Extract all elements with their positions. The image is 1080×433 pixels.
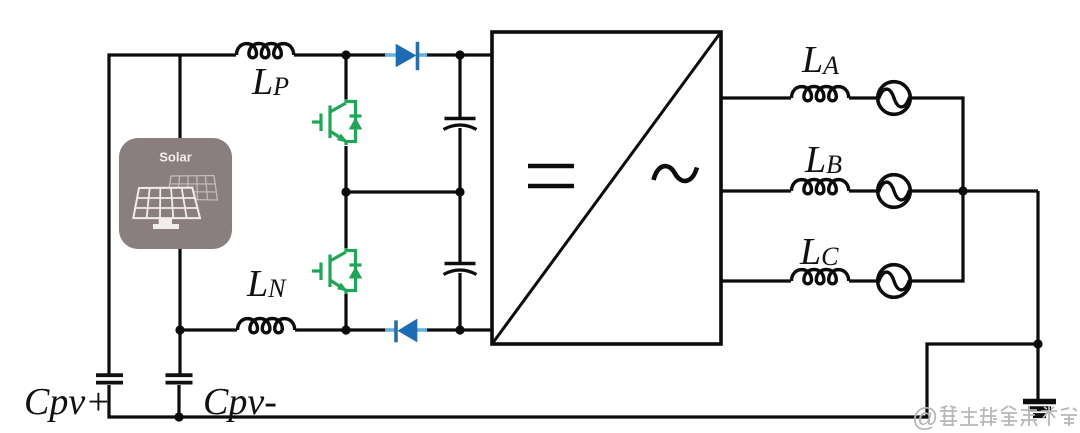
capacitor Cpv+ [96, 375, 123, 382]
wire bottom bus left segment [180, 328, 237, 331]
node bottom of IGBT branch [341, 325, 350, 334]
wire top bus after diode D1 [425, 53, 492, 56]
big front panel [133, 188, 200, 219]
wire far right vertical to ground [1036, 191, 1039, 399]
inductor LC [792, 270, 849, 284]
wire left vertical (PV+ rail) [107, 53, 110, 375]
svg-text:LP: LP [251, 61, 289, 103]
IGBT Q1 [312, 99, 362, 145]
svg-text:Solar: Solar [159, 150, 192, 165]
dc symbol [528, 166, 574, 186]
node neutral/ground [1033, 339, 1042, 348]
capacitor C1 (dc link upper) [444, 119, 477, 130]
wire phase A output [722, 96, 963, 99]
wire phase C output [722, 279, 963, 282]
wire second vertical (PV- rail through solar icon) [178, 55, 181, 375]
svg-text:LB: LB [804, 139, 842, 181]
AC source VA [878, 82, 911, 115]
wire right bus vertical [961, 96, 964, 282]
diode D2 (points left) [385, 319, 427, 343]
inductor LA [792, 87, 849, 101]
wire cap C2 top [458, 192, 461, 262]
capacitor C2 (dc link lower) [444, 264, 477, 275]
watermark [912, 402, 1077, 432]
wire cap C1 branch top [458, 55, 461, 117]
wire IGBT1 emitter to mid node [344, 146, 347, 192]
wire IGBT1 collector drop [344, 55, 347, 100]
wire top bus left segment [109, 53, 236, 56]
node top of cap branch [455, 50, 464, 59]
IGBT Q2 [312, 248, 362, 294]
node top of IGBT branch [341, 50, 350, 59]
wire mid horizontal [346, 190, 460, 193]
ac tilde [654, 166, 698, 181]
node mid right [455, 187, 464, 196]
small back panel [168, 176, 218, 201]
wire Cpv- bottom lead [177, 385, 180, 417]
wire mid node to IGBT2 collector [344, 192, 347, 248]
wire Cpv+ bottom lead [109, 385, 927, 419]
wire bottom bus after LN [295, 328, 387, 331]
solar panel icon [119, 138, 232, 249]
svg-text:Cpv+: Cpv+ [24, 381, 111, 423]
wire cap C2 bottom [458, 273, 461, 330]
svg-text:LA: LA [801, 39, 839, 81]
capacitor Cpv- [166, 375, 193, 382]
node bottom of cap branch [455, 325, 464, 334]
diode D1 (boost diode, points right) [385, 42, 427, 70]
svg-text:Cpv-: Cpv- [203, 381, 277, 423]
inductor LP [237, 44, 294, 58]
wire IGBT2 emitter drop [344, 294, 347, 330]
node bottom bus left [175, 325, 184, 334]
node phase B bus [958, 186, 967, 195]
wire right riser to neutral [927, 344, 1039, 419]
wire phase B output [722, 189, 1038, 192]
node mid left [341, 187, 350, 196]
wire top bus after LP [294, 53, 387, 56]
svg-text:@: @ [912, 402, 938, 432]
inductor LN [238, 319, 295, 333]
ground symbol [1023, 402, 1056, 416]
node Cpv- bottom [174, 412, 183, 421]
inverter U1 box [492, 32, 721, 344]
AC source VC [878, 265, 911, 298]
svg-text:LN: LN [246, 263, 287, 305]
panel stand [153, 219, 179, 230]
svg-text:LC: LC [799, 231, 839, 273]
wire bottom bus after diode D2 [425, 328, 492, 331]
inductor LB [792, 180, 849, 194]
AC source VB [878, 175, 911, 208]
wire cap C1 bottom [458, 128, 461, 192]
